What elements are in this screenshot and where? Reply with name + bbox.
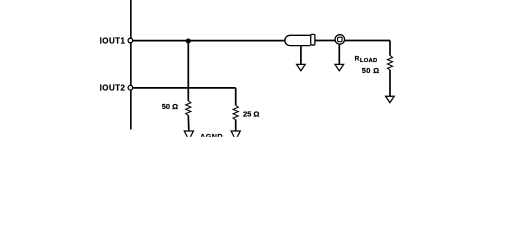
svg-text:IOUT1: IOUT1 (100, 37, 126, 46)
svg-text:50 Ω: 50 Ω (362, 66, 380, 75)
svg-text:50 Ω: 50 Ω (162, 102, 178, 111)
svg-text:IOUT2: IOUT2 (100, 84, 126, 93)
svg-text:LOAD: LOAD (360, 58, 378, 64)
svg-text:25 Ω: 25 Ω (243, 110, 259, 119)
svg-text:R: R (355, 56, 360, 63)
